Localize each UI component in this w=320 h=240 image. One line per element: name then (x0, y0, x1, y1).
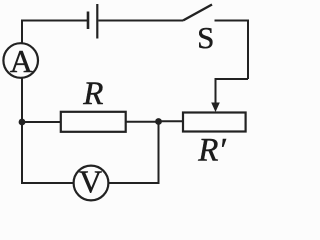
wiper arrow shaft into rheostat (215, 78, 217, 104)
rheostat R' body (183, 113, 246, 132)
wire node B to resistor R (126, 121, 159, 123)
svg-text:V: V (79, 163, 102, 199)
wire battery to switch pivot (98, 20, 183, 22)
resistor R body (61, 112, 126, 132)
wire ammeter down left rail to bottom corner (21, 78, 23, 183)
node B junction dot (155, 118, 162, 125)
wire rheostat left terminal to node B (159, 120, 184, 122)
wire top-left from corner to battery (22, 20, 87, 22)
svg-text:A: A (10, 43, 33, 79)
voltmeter V body (74, 166, 109, 201)
wire right rail down (247, 20, 249, 80)
label A (10, 43, 33, 79)
wire right rail to wiper arrow (216, 78, 249, 80)
wire switch contact to top-right corner (215, 20, 249, 22)
switch S lever (open) (183, 5, 212, 21)
wire resistor R to node A (22, 121, 61, 123)
wire voltmeter to bottom-right corner (108, 182, 158, 184)
wire bottom-right corner up to node B (158, 122, 160, 185)
battery B1 short plate (negative) (87, 12, 90, 30)
label S (197, 20, 214, 55)
wiper arrowhead (211, 103, 220, 113)
ammeter A body (3, 43, 38, 78)
label V (79, 163, 102, 199)
node A junction dot (19, 119, 26, 126)
svg-text:R: R (82, 76, 103, 112)
label R' (197, 133, 226, 169)
battery B1 long plate (positive) (96, 4, 98, 39)
svg-text:S: S (197, 20, 214, 55)
svg-text:R′: R′ (197, 133, 226, 169)
wire top-left corner down to ammeter (21, 20, 23, 44)
label R (82, 76, 103, 112)
wire bottom-left corner to voltmeter (21, 182, 74, 184)
